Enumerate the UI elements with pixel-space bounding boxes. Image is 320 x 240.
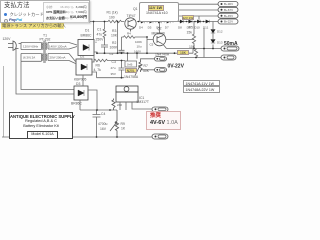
svg-text:120V: 120V	[3, 37, 12, 41]
svg-text:16V: 16V	[100, 127, 107, 131]
svg-text:R9: R9	[121, 122, 125, 126]
svg-text:R7: R7	[144, 64, 148, 68]
svg-text:R2: R2	[112, 41, 116, 45]
svg-text:B+45V: B+45V	[224, 14, 233, 18]
svg-text:47u: 47u	[111, 66, 116, 70]
svg-text:0V-22V: 0V-22V	[168, 64, 185, 70]
svg-text:D13: D13	[217, 41, 223, 45]
svg-text:R3: R3	[112, 29, 116, 33]
svg-text:R6: R6	[96, 64, 100, 68]
svg-text:D7: D7	[165, 26, 169, 30]
svg-text:4. 7k: 4. 7k	[94, 68, 102, 72]
svg-text:LM317T: LM317T	[137, 100, 149, 104]
svg-text:20V/ 200mA: 20V/ 200mA	[50, 56, 66, 60]
svg-text:10K: 10K	[111, 34, 118, 38]
svg-text:10u: 10u	[137, 45, 142, 49]
svg-text:D3: D3	[76, 82, 80, 86]
svg-text:240: 240	[117, 103, 122, 107]
svg-text:35V: 35V	[111, 72, 116, 76]
svg-text:C4: C4	[101, 112, 105, 116]
svg-text:C2: C2	[110, 52, 114, 56]
svg-text:250V: 250V	[96, 38, 105, 42]
svg-text:50mA: 50mA	[224, 41, 238, 47]
svg-text:1K: 1K	[121, 127, 126, 131]
svg-text:TIP47: TIP47	[127, 14, 136, 18]
svg-text:D6: D6	[156, 26, 160, 30]
svg-text:D9: D9	[187, 26, 191, 30]
svg-text:C3: C3	[112, 60, 116, 64]
svg-text:47u: 47u	[97, 33, 103, 37]
svg-text:R1 (1k): R1 (1k)	[107, 11, 118, 15]
svg-text:D4: D4	[139, 26, 143, 30]
svg-text:50K: 50K	[143, 69, 150, 73]
svg-text:120V/ 60Hz: 120V/ 60Hz	[23, 44, 39, 48]
svg-text:KBP005: KBP005	[74, 78, 87, 82]
svg-text:D8: D8	[178, 26, 182, 30]
svg-text:Q1: Q1	[133, 7, 138, 11]
svg-text:10K: 10K	[189, 45, 196, 49]
svg-text:B+90V: B+90V	[224, 2, 233, 6]
svg-text:140V/ 120mA: 140V/ 120mA	[49, 44, 67, 48]
svg-text:B+22V: B+22V	[224, 20, 233, 24]
svg-text:D10: D10	[194, 26, 200, 30]
svg-text:4700u: 4700u	[98, 122, 108, 126]
svg-text:C1: C1	[97, 28, 101, 32]
svg-text:100: 100	[109, 16, 115, 20]
svg-text:100K: 100K	[135, 40, 142, 44]
svg-text:15k: 15k	[187, 31, 193, 35]
svg-text:D11: D11	[203, 26, 209, 30]
svg-text:BR86C: BR86C	[71, 102, 82, 106]
svg-text:D5: D5	[148, 26, 152, 30]
svg-text:100K: 100K	[110, 46, 119, 50]
svg-text:D2: D2	[80, 55, 84, 59]
svg-text:1N4756A: 1N4756A	[124, 75, 139, 79]
svg-text:(6.3V) 2A: (6.3V) 2A	[23, 56, 35, 60]
svg-text:C5: C5	[150, 43, 154, 47]
svg-text:1N4740A: 1N4740A	[155, 53, 170, 57]
svg-text:MPSA06: MPSA06	[152, 32, 165, 36]
svg-text:D1: D1	[85, 29, 89, 33]
svg-text:D12: D12	[217, 30, 223, 34]
svg-text:PT-292: PT-292	[40, 38, 51, 42]
svg-text:0+B: 0+B	[127, 63, 132, 67]
svg-text:R4: R4	[127, 32, 131, 36]
svg-text:160V: 160V	[134, 50, 141, 54]
svg-text:BR86C: BR86C	[81, 34, 92, 38]
svg-text:B+67V: B+67V	[224, 8, 233, 12]
